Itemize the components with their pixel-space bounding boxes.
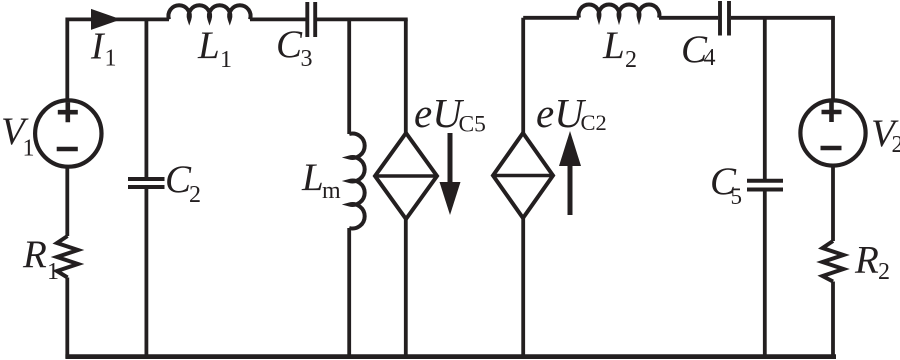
wire Lm branch lower [347, 228, 351, 358]
label R2 [854, 239, 890, 286]
controlled source diamond eU_C2 [493, 133, 553, 218]
bottom rail wire [65, 354, 836, 359]
inductor L2 [579, 5, 660, 18]
voltage source V2 [800, 100, 865, 165]
svg-text:2: 2 [892, 132, 900, 158]
arrow for eU_C5 (down) [448, 133, 453, 185]
label V1 [1, 110, 35, 162]
capacitor C5 [747, 181, 783, 190]
voltage source V1 [35, 100, 101, 166]
label C2 [165, 158, 201, 208]
wire C3 to top-right corner of left loop [317, 17, 408, 21]
svg-text:2: 2 [189, 182, 201, 208]
svg-text:C: C [165, 158, 192, 201]
svg-text:C5: C5 [459, 112, 486, 138]
capacitor C2 [128, 179, 165, 187]
wire right rail left segment [523, 16, 579, 20]
label V2 [871, 112, 900, 158]
svg-text:C: C [276, 23, 303, 66]
svg-text:L: L [301, 156, 324, 199]
wire R1 to bottom rail [65, 278, 69, 359]
svg-text:1: 1 [47, 259, 59, 285]
svg-text:2: 2 [625, 47, 637, 73]
wire Lm branch upper [347, 19, 351, 134]
wire C4 to top-right corner [731, 16, 835, 20]
inductor L1 [168, 5, 250, 19]
svg-text:5: 5 [731, 184, 743, 209]
wire left rail top segment V1 to L1 [67, 17, 169, 21]
svg-text:L: L [197, 24, 220, 67]
svg-text:4: 4 [704, 45, 716, 71]
wire C2 branch lower [144, 189, 148, 359]
svg-text:3: 3 [301, 46, 313, 72]
label C3 [276, 23, 313, 72]
resistor R1 [57, 236, 78, 278]
svg-text:eU: eU [536, 90, 586, 136]
label I1 [90, 26, 117, 72]
label Lm [301, 156, 341, 204]
label L2 [602, 24, 637, 73]
wire V2 branch upper [831, 16, 835, 99]
svg-text:L: L [602, 24, 625, 67]
svg-text:R: R [22, 233, 47, 276]
label eU_C5 [414, 90, 486, 138]
arrow for eU_C2 (up) [568, 163, 573, 215]
wire L2 to C4 [659, 16, 718, 20]
wire V1 to R1 [65, 167, 69, 237]
wire V2 to R2 [831, 166, 835, 242]
capacitor C3 [307, 2, 315, 37]
svg-text:eU: eU [414, 90, 464, 136]
wire C5 branch upper [763, 18, 767, 179]
wire L1 to C3 [250, 17, 306, 21]
svg-text:1: 1 [105, 46, 117, 72]
inductor Lm [349, 134, 364, 229]
svg-text:1: 1 [23, 136, 35, 162]
wire V1 branch upper [65, 18, 69, 99]
svg-text:m: m [322, 178, 341, 204]
wire controlled source branch lower (right loop) [521, 218, 525, 358]
controlled source diamond eU_C5 [375, 133, 437, 219]
label R1 [22, 233, 59, 285]
wire C2 branch upper [144, 19, 148, 177]
svg-text:R: R [854, 239, 879, 282]
label C4 [681, 28, 716, 71]
svg-text:2: 2 [878, 259, 890, 285]
capacitor C4 [720, 1, 729, 36]
wire controlled source branch upper (left loop) [404, 19, 408, 133]
label L1 [197, 24, 232, 73]
wire controlled source branch lower (left loop) [404, 219, 408, 358]
svg-text:C2: C2 [581, 110, 607, 135]
current arrow I1 [91, 9, 121, 30]
resistor R2 [823, 241, 844, 282]
wire controlled source branch upper (right loop) [521, 18, 525, 133]
label eU_C2 [536, 90, 607, 136]
svg-text:1: 1 [220, 47, 232, 73]
wire C5 branch lower [763, 190, 767, 358]
wire R2 to bottom rail [831, 282, 835, 359]
label C5 [710, 160, 742, 209]
